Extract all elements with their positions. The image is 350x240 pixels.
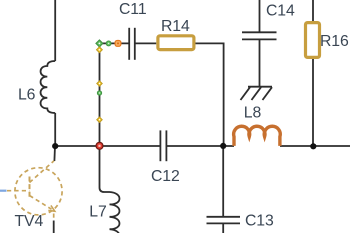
svg-text:C13: C13 bbox=[245, 213, 274, 230]
svg-text:L6: L6 bbox=[18, 87, 36, 104]
svg-text:C12: C12 bbox=[151, 168, 180, 185]
svg-text:TV4: TV4 bbox=[15, 213, 44, 230]
svg-text:L7: L7 bbox=[89, 204, 106, 221]
svg-text:R14: R14 bbox=[161, 18, 190, 35]
svg-text:L8: L8 bbox=[244, 105, 262, 122]
svg-text:R16: R16 bbox=[320, 33, 349, 50]
svg-text:C11: C11 bbox=[119, 1, 147, 18]
svg-text:C14: C14 bbox=[266, 3, 295, 20]
